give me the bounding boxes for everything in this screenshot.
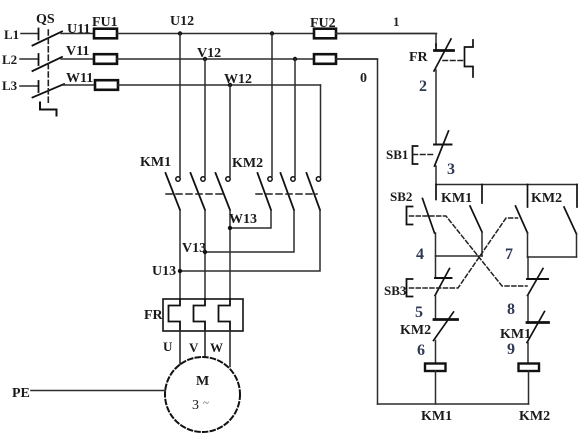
label 6 [417, 342, 425, 359]
switch QS pole 1 [33, 29, 63, 46]
label W11 [66, 71, 93, 86]
label PE [12, 386, 30, 401]
wire motor V [204, 331, 206, 357]
svg-text:3: 3 [447, 161, 455, 178]
svg-text:KM2: KM2 [400, 323, 431, 338]
FR trip device [443, 40, 473, 77]
label V13 [182, 241, 206, 256]
label KM1 main [140, 155, 171, 170]
wire KM1 out2 [204, 210, 206, 299]
svg-text:PE: PE [12, 386, 30, 401]
wire 9 [527, 343, 529, 364]
svg-text:5: 5 [415, 304, 423, 321]
wire drop KM1 c3 [229, 85, 231, 177]
label W terminal [210, 340, 223, 355]
svg-text:V11: V11 [66, 44, 89, 59]
svg-text:W11: W11 [66, 71, 93, 86]
switch QS pole 2 [33, 54, 63, 71]
node dot V13 [203, 250, 207, 254]
svg-text:SB1: SB1 [386, 147, 408, 162]
label L3 [2, 78, 18, 93]
label 0 [360, 71, 367, 86]
contact SB3 NO right [516, 185, 528, 258]
svg-text:2: 2 [419, 78, 427, 95]
contactor KM1 contact 1 [166, 173, 181, 210]
svg-text:KM2: KM2 [519, 409, 550, 424]
wire bus W12 row3 [118, 84, 321, 86]
svg-text:U: U [163, 339, 173, 354]
label U11 [67, 22, 90, 37]
pushbutton SB1 NC [413, 131, 452, 166]
svg-text:9: 9 [507, 341, 515, 358]
contactor KM2 contact 3 [307, 173, 321, 210]
motor M circle [165, 357, 240, 432]
contact KM1 aux NO [470, 185, 482, 257]
node dot V12-KM2 [293, 57, 297, 61]
wire 2 [435, 70, 437, 145]
svg-text:3: 3 [192, 398, 199, 413]
svg-text:U13: U13 [152, 264, 176, 279]
linkage SB3 dashed [410, 218, 518, 288]
coil KM1 [425, 364, 446, 372]
wire coil KM2 down [528, 371, 530, 404]
contactor KM1 contact 2 [191, 173, 206, 210]
wire 0 rail [336, 59, 378, 404]
fuse FU1 a [94, 29, 117, 39]
svg-text:8: 8 [507, 301, 515, 318]
thermal contact FR NC [434, 39, 454, 71]
svg-text:KM2: KM2 [531, 191, 562, 206]
wire U11 [61, 33, 94, 35]
label SB2 [390, 189, 412, 204]
wire motor U [179, 331, 181, 365]
node 3 rail [436, 184, 577, 186]
contactor KM2 contact 1 [258, 173, 273, 210]
linkage SB2 dashed [410, 216, 528, 286]
label U12 [170, 14, 194, 29]
wire KM1 out3 [229, 210, 231, 299]
heater element 2 [194, 299, 206, 331]
svg-text:M: M [196, 374, 209, 389]
node dot V12-KM1 [203, 57, 207, 61]
svg-text:KM1: KM1 [421, 409, 452, 424]
label 9 [507, 341, 515, 358]
label V11 [66, 44, 89, 59]
label KM2 aux [531, 191, 562, 206]
svg-text:V: V [189, 340, 199, 355]
pushbutton SB2 NO [407, 185, 437, 234]
label 1 [393, 14, 400, 29]
svg-text:L1: L1 [4, 27, 19, 42]
wire KM2 out2 to V13 [205, 210, 294, 252]
coil KM2 [519, 364, 540, 372]
contact KM2 NC interlock [434, 312, 458, 341]
pushbutton SB2 NC right [527, 257, 548, 296]
wire SB2 to node4 [435, 233, 437, 256]
label U13 [152, 264, 176, 279]
svg-text:KM1: KM1 [500, 327, 531, 342]
wire KM1 out1 [179, 210, 181, 299]
wire drop KM2 c3 [320, 85, 322, 177]
wire bottom rail [378, 403, 529, 405]
label SB1 [386, 147, 408, 162]
heater element 1 [169, 299, 181, 331]
fuse FU2 a [314, 29, 336, 39]
svg-text:7: 7 [505, 246, 513, 263]
pushbutton SB3 NC left [407, 256, 452, 297]
wire 8 [527, 296, 529, 323]
thermal relay FR box [163, 299, 243, 331]
svg-text:L3: L3 [2, 78, 18, 93]
wire 6 [435, 341, 437, 364]
switch QS linkage dashed [47, 30, 49, 103]
svg-text:W13: W13 [229, 212, 257, 227]
node 4 rail [436, 255, 483, 257]
wire PE [31, 390, 165, 392]
contactor KM1 linkage dashed [166, 193, 226, 195]
node dot W12-KM1 [228, 83, 232, 87]
label 5 [415, 304, 423, 321]
switch QS handle [40, 103, 57, 116]
wire coil KM1 down [435, 371, 437, 404]
svg-text:SB3: SB3 [384, 283, 407, 298]
wire 5 [435, 296, 437, 320]
svg-text:U12: U12 [170, 14, 194, 29]
svg-text:KM1: KM1 [441, 191, 472, 206]
label SB3 [384, 283, 407, 298]
node dot U13 [178, 269, 182, 273]
svg-text:QS: QS [36, 12, 55, 27]
label 3 phase [192, 397, 209, 413]
svg-text:4: 4 [416, 246, 424, 263]
label FU1 [92, 15, 118, 30]
label KM1 interlock [500, 327, 531, 342]
heater element 3 [219, 299, 231, 331]
wire drop KM1 c1 [179, 34, 181, 177]
label 8 [507, 301, 515, 318]
svg-text:0: 0 [360, 71, 367, 86]
wire W11 [63, 84, 94, 86]
wire 3 [435, 166, 437, 185]
svg-text:FR: FR [409, 50, 429, 65]
wire L1 in [21, 33, 39, 35]
label KM2 interlock [400, 323, 431, 338]
node dot U12-KM2 [270, 31, 274, 35]
wire L3 in [20, 85, 39, 87]
wire bus V12 row2 [117, 58, 378, 60]
wire motor W [229, 331, 231, 367]
svg-text:1: 1 [393, 14, 400, 29]
label KM1 coil [421, 409, 452, 424]
node 7 rail [528, 256, 577, 258]
wire bus U12 row1 [117, 33, 437, 35]
label W13 [229, 212, 257, 227]
label 3 [447, 161, 455, 178]
node dot U12-KM1 [178, 31, 182, 35]
label KM1 aux [441, 191, 472, 206]
svg-text:KM1: KM1 [140, 155, 171, 170]
fuse FU1 b [94, 54, 117, 64]
svg-text:SB2: SB2 [390, 189, 412, 204]
label U terminal [163, 339, 173, 354]
contact KM2 aux NO [564, 185, 577, 258]
svg-text:V12: V12 [197, 46, 221, 61]
label L2 [2, 52, 17, 67]
wire 1 [336, 34, 436, 47]
wire drop KM2 c1 [271, 34, 273, 177]
label M [196, 374, 209, 389]
wire KM2 out3 to U13 [180, 210, 320, 271]
svg-text:~: ~ [203, 397, 209, 409]
label KM2 main [232, 156, 263, 171]
label KM2 coil [519, 409, 550, 424]
label V12 [197, 46, 221, 61]
label FR power [144, 308, 164, 323]
contact KM1 NC interlock [527, 312, 549, 343]
wire drop KM2 c2 [294, 59, 296, 177]
label FU2 [310, 16, 336, 31]
svg-text:W: W [210, 340, 223, 355]
label 2 [419, 78, 427, 95]
switch QS pole 3 [33, 81, 65, 98]
label V terminal [189, 340, 199, 355]
svg-text:V13: V13 [182, 241, 206, 256]
label W12 [224, 72, 252, 87]
svg-text:KM2: KM2 [232, 156, 263, 171]
contactor KM1 contact 3 [216, 173, 231, 210]
fuse FU2 b [314, 54, 336, 64]
svg-text:U11: U11 [67, 22, 90, 37]
label FR control [409, 50, 429, 65]
label L1 [4, 27, 19, 42]
contactor KM2 linkage dashed [256, 193, 317, 195]
wire L2 in [20, 58, 39, 60]
wire KM2 out1 to W13 [230, 210, 271, 228]
fuse FU1 c [95, 80, 118, 90]
svg-text:FR: FR [144, 308, 164, 323]
label 7 [505, 246, 513, 263]
label 4 [416, 246, 424, 263]
label QS [36, 12, 55, 27]
wire V11 [61, 58, 94, 60]
contactor KM2 contact 2 [281, 173, 296, 210]
svg-text:6: 6 [417, 342, 425, 359]
wire drop KM1 c2 [204, 59, 206, 177]
svg-text:L2: L2 [2, 52, 17, 67]
node dot W13 [228, 226, 232, 230]
